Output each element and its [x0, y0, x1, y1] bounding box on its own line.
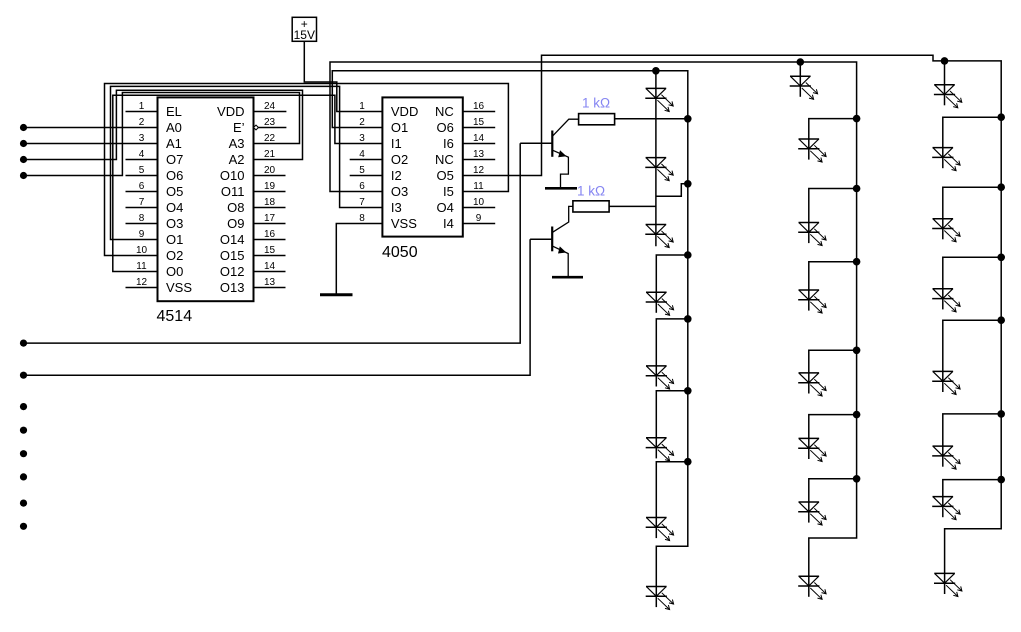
LED D5	[646, 366, 674, 389]
LED D8	[646, 587, 674, 610]
svg-text:2: 2	[359, 117, 365, 128]
LED D7	[646, 518, 674, 541]
wire bracket to LED D13	[809, 350, 857, 373]
power supply +15V box	[292, 17, 316, 42]
svg-text:O3: O3	[391, 184, 408, 199]
svg-text:4514: 4514	[157, 308, 193, 325]
wire bracket to LED D5	[656, 319, 688, 366]
svg-text:20: 20	[264, 165, 276, 176]
LED D1	[645, 88, 673, 111]
LED D6	[646, 438, 674, 461]
wire tap LED2 cathode to return line	[656, 184, 688, 197]
node column 3 junction 4	[997, 316, 1005, 324]
svg-text:I5: I5	[443, 184, 454, 199]
label R2 value 1 kOhm	[577, 184, 605, 199]
wire column 3 top feed	[944, 61, 946, 85]
svg-text:10: 10	[136, 245, 148, 256]
wire Q1 base from input row 5	[24, 143, 521, 343]
wire R2 to LED column 1	[609, 205, 656, 207]
svg-text:7: 7	[359, 197, 365, 208]
svg-text:O9: O9	[227, 216, 244, 231]
svg-text:2: 2	[139, 117, 145, 128]
wire input A1 to pin 3	[24, 143, 158, 145]
svg-text:NC: NC	[435, 104, 454, 119]
svg-text:21: 21	[264, 149, 276, 160]
svg-text:O1: O1	[166, 232, 183, 247]
svg-text:8: 8	[359, 213, 365, 224]
svg-text:1: 1	[139, 101, 145, 112]
svg-text:O5: O5	[436, 168, 453, 183]
svg-text:15: 15	[264, 245, 276, 256]
svg-text:14: 14	[264, 261, 276, 272]
node spare input dot 1	[20, 403, 27, 410]
node column 2 junction 1	[853, 115, 861, 123]
svg-text:A2: A2	[229, 152, 245, 167]
LED D3	[645, 225, 673, 248]
node input dot 4	[20, 172, 27, 179]
svg-text:O13: O13	[220, 280, 245, 295]
LED D13	[798, 373, 826, 396]
wire column 2 top feed	[799, 62, 801, 76]
svg-text:O15: O15	[220, 248, 245, 263]
wire bracket to LED D18	[943, 117, 1001, 147]
node column 1 junction 3	[684, 387, 692, 395]
node column 2 junction 6	[853, 475, 861, 483]
wire bracket to LED D12	[809, 262, 857, 290]
transistor Q2 (NPN)	[530, 206, 573, 276]
wire input to A2 (over the top to pin 21)	[24, 90, 303, 159]
svg-text:11: 11	[136, 261, 147, 272]
node column 1 junction 1	[684, 251, 692, 259]
wire 4514 O0 pin 11 to 4050 I1 pin 3	[113, 95, 383, 271]
svg-text:3: 3	[359, 133, 365, 144]
node column 1 junction 2	[684, 315, 692, 323]
svg-text:18: 18	[264, 197, 276, 208]
svg-text:O10: O10	[220, 168, 245, 183]
svg-text:16: 16	[473, 101, 485, 112]
node input dot 1	[20, 124, 27, 131]
LED D2	[645, 158, 673, 181]
node spare input dot 5	[20, 500, 27, 507]
node column 1 junction 4	[684, 458, 692, 466]
svg-text:I1: I1	[391, 136, 402, 151]
LED D21	[932, 371, 960, 394]
node column 2 junction 4	[853, 347, 861, 355]
svg-text:VSS: VSS	[166, 280, 192, 295]
node tap junction	[684, 180, 692, 188]
wire bracket to LED D7	[656, 462, 688, 518]
node column 2 junction 3	[853, 258, 861, 266]
LED D12	[798, 290, 826, 313]
svg-text:4: 4	[139, 149, 145, 160]
svg-text:9: 9	[476, 213, 482, 224]
node spare input dot 2	[20, 427, 27, 434]
svg-text:O12: O12	[220, 264, 245, 279]
LED D11	[798, 223, 826, 246]
node column 3 junction 5	[997, 410, 1005, 418]
svg-text:E’: E’	[233, 120, 245, 135]
LED D22	[932, 446, 960, 469]
svg-text:4050: 4050	[382, 244, 418, 261]
wire bracket to LED D15	[809, 479, 857, 502]
node spare input dot 6	[20, 523, 27, 530]
LED D24	[934, 573, 962, 596]
wire Q2 base from input row 6	[24, 239, 531, 375]
ground G3	[320, 293, 353, 296]
LED D17	[934, 85, 962, 108]
wire bracket to LED D6	[656, 391, 688, 438]
svg-text:11: 11	[473, 181, 484, 192]
LED D16	[798, 576, 826, 599]
wire bracket to LED D4	[656, 255, 688, 292]
LED D23	[932, 497, 960, 520]
wire bracket to LED D14	[809, 415, 857, 439]
wire 4514 O2 pin 10 to 4050 I5 pin 11	[105, 84, 509, 256]
svg-text:13: 13	[473, 149, 485, 160]
node R1 junction	[684, 115, 692, 123]
svg-text:A1: A1	[166, 136, 182, 151]
node spare input dot 4	[20, 473, 27, 480]
transistor Q1 (NPN)	[520, 119, 578, 187]
wire 15V to 4050 VDD pin 1	[304, 41, 382, 111]
svg-text:3: 3	[139, 133, 145, 144]
svg-text:4: 4	[359, 149, 365, 160]
svg-text:I3: I3	[391, 200, 402, 215]
svg-text:A0: A0	[166, 120, 182, 135]
svg-text:I4: I4	[443, 216, 454, 231]
svg-text:O7: O7	[166, 152, 183, 167]
svg-text:7: 7	[139, 197, 145, 208]
wire 4050 VSS pin 8 to ground	[336, 224, 382, 295]
wire bracket to LED D11	[809, 189, 857, 223]
resistor R2 1k	[573, 201, 609, 212]
node column 2 junction 2	[853, 185, 861, 193]
svg-text:15: 15	[473, 117, 485, 128]
svg-text:23: 23	[264, 117, 276, 128]
wire input to A3 (over the top to pin 22)	[24, 93, 300, 176]
LED D18	[932, 148, 960, 171]
wire R1 to column 1 return line	[615, 118, 688, 120]
node column 3 junction 6	[997, 476, 1005, 484]
svg-text:I2: I2	[391, 168, 402, 183]
label R1 value 1 kOhm	[582, 96, 610, 111]
svg-text:10: 10	[473, 197, 485, 208]
svg-text:17: 17	[264, 213, 276, 224]
svg-text:15V: 15V	[294, 28, 315, 42]
svg-text:19: 19	[264, 181, 276, 192]
svg-text:14: 14	[473, 133, 485, 144]
svg-text:1: 1	[359, 101, 365, 112]
node column 2 top junction	[797, 58, 805, 66]
node column 3 junction 3	[997, 253, 1005, 261]
svg-text:22: 22	[264, 133, 276, 144]
wire bus O3 pin 6 to LED column 2	[330, 62, 857, 576]
svg-text:O1: O1	[391, 120, 408, 135]
resistor R1 1k	[579, 114, 615, 125]
node spare input dot 3	[20, 450, 27, 457]
LED D9	[790, 76, 818, 99]
node input dot 2	[20, 140, 27, 147]
svg-text:1 kΩ: 1 kΩ	[582, 96, 610, 111]
svg-text:O8: O8	[227, 200, 244, 215]
wire bracket to LED D21	[943, 320, 1001, 371]
svg-text:O4: O4	[166, 200, 183, 215]
svg-text:9: 9	[139, 229, 145, 240]
IC U2 4050 hex buffer	[350, 97, 496, 261]
svg-text:16: 16	[264, 229, 276, 240]
svg-text:O0: O0	[166, 264, 183, 279]
svg-text:O6: O6	[166, 168, 183, 183]
svg-text:6: 6	[139, 181, 145, 192]
svg-text:VDD: VDD	[391, 104, 418, 119]
wire bus O1 pin 2 to LED column 1	[332, 71, 688, 587]
svg-text:VSS: VSS	[391, 216, 417, 231]
svg-text:O14: O14	[220, 232, 245, 247]
svg-text:A3: A3	[229, 136, 245, 151]
wire bracket to LED D22	[943, 414, 1001, 446]
svg-text:1 kΩ: 1 kΩ	[577, 184, 605, 199]
node column 1 top junction	[652, 67, 660, 75]
svg-text:O2: O2	[166, 248, 183, 263]
wire input A0 to pin 2	[24, 127, 158, 129]
node column 3 junction 1	[997, 113, 1005, 121]
svg-text:O6: O6	[436, 120, 453, 135]
svg-text:I6: I6	[443, 136, 454, 151]
LED D15	[798, 502, 826, 525]
node Q1 base input dot	[20, 340, 27, 347]
wire bracket to LED D20	[943, 257, 1001, 289]
svg-text:12: 12	[136, 277, 148, 288]
wire bracket to LED D23	[943, 480, 1001, 497]
LED D14	[798, 438, 826, 461]
wire 4514 O1 pin 9 to 4050 I3 pin 7	[111, 86, 383, 239]
svg-text:24: 24	[264, 101, 276, 112]
svg-text:6: 6	[359, 181, 365, 192]
LED D10	[798, 139, 826, 162]
svg-text:O3: O3	[166, 216, 183, 231]
node column 3 junction 2	[997, 183, 1005, 191]
ground G2 (Q2 emitter)	[552, 276, 583, 279]
node column 2 junction 5	[853, 411, 861, 419]
IC U1 4514 demultiplexer	[126, 97, 287, 325]
svg-text:5: 5	[139, 165, 145, 176]
svg-text:5: 5	[359, 165, 365, 176]
LED D4	[646, 292, 674, 315]
svg-text:12: 12	[473, 165, 485, 176]
svg-text:O4: O4	[436, 200, 453, 215]
wire bracket to LED D19	[943, 187, 1001, 219]
wire bus O5 pin 12 to LED column 3	[463, 55, 1001, 573]
wire bracket to LED D10	[809, 119, 857, 139]
node input dot 3	[20, 156, 27, 163]
svg-text:8: 8	[139, 213, 145, 224]
svg-text:O11: O11	[221, 184, 245, 199]
svg-text:VDD: VDD	[217, 104, 244, 119]
ground G1 (Q1 emitter)	[545, 187, 577, 190]
wire column 1 series chain LED1-LED3	[655, 71, 657, 247]
node Q2 base input dot	[20, 372, 27, 379]
svg-text:O2: O2	[391, 152, 408, 167]
svg-text:EL: EL	[166, 104, 182, 119]
svg-text:O5: O5	[166, 184, 183, 199]
node column 3 top junction	[941, 57, 949, 65]
LED D19	[932, 219, 960, 242]
svg-text:13: 13	[264, 277, 276, 288]
LED D20	[932, 289, 960, 312]
pin 23 E' inverter diamond	[254, 125, 259, 130]
svg-text:NC: NC	[435, 152, 454, 167]
